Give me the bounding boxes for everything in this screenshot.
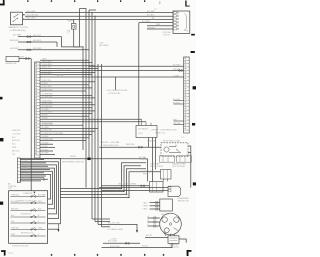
switch box title [24,192,36,195]
svg-text:3 YEL: 3 YEL [22,164,27,166]
component box: radiator fan motor terminals [160,199,173,211]
svg-text:YEL: YEL [12,154,15,156]
wire: crossover row to strip [40,70,184,72]
svg-text:AIR SELECTOR: AIR SELECTOR [21,231,34,234]
relay box: condenser fan motor relay [160,156,175,162]
svg-text:BLU BLK: BLU BLK [147,15,155,17]
wire: clutch to condenser fan connector pin 2 [25,15,173,17]
svg-text:C-x: C-x [181,137,184,139]
label: condenser fan motor [177,198,189,202]
wire: feed to condenser fan plug 2 [102,190,168,192]
wire: branch to bus mid [115,77,117,90]
wire: diode feed row [40,158,148,161]
bus wire 1 vertical [79,8,81,47]
connector id label C-33 [99,43,109,48]
bottom edge fold ticks [51,254,164,256]
svg-text:2 GRN: 2 GRN [143,206,149,208]
strip id label [150,129,184,139]
right edge alignment tick B [191,51,195,53]
wire: clutch to condenser fan connector pin 1 [25,12,173,14]
wire from left connector row y62.6 [40,62,92,64]
wire: crossover from bus to bulkhead pin [89,65,184,67]
wire: cooling fan feed row [102,183,150,187]
dashed relay labels [147,140,181,143]
wire from left connector row y151.0 [40,150,53,152]
label: A/C control unit [8,182,17,190]
svg-text:BLU WHT: BLU WHT [142,21,151,23]
svg-text:PUSH BUTTON SW: PUSH BUTTON SW [12,246,29,248]
wire: feed to condenser fan plug 1 [99,187,168,189]
label: junction block ignition [106,90,127,95]
svg-text:COND FAN: COND FAN [147,140,157,143]
svg-text:GRN: GRN [20,57,25,59]
wire from left connector row y110.9 [40,110,95,112]
wire from left connector row y131.2 [40,130,95,132]
svg-text:27 YEL: 27 YEL [42,149,48,151]
page corner registration mark bottom-left [1,250,6,255]
svg-text:MOTOR RELAY: MOTOR RELAY [150,165,164,168]
left edge pointer arrow [0,202,3,205]
svg-text:TO CHARGE LAMP: TO CHARGE LAMP [107,228,124,231]
wire: relay pin drop B [40,122,146,125]
wire: crossover row lt grn [40,76,184,78]
wire: relay block output down [148,138,150,148]
svg-text:C-36 WHT : COND FAN: C-36 WHT : COND FAN [100,141,120,144]
wire: vertical drop column 1 [138,23,140,126]
svg-text:WHT BLK: WHT BLK [12,140,21,142]
wire from left connector row y144.2 [40,143,53,145]
wire: resistor to left [145,237,168,239]
svg-text:10 BLU RED: 10 BLU RED [42,89,53,91]
svg-text:GRN BLK: GRN BLK [147,27,156,29]
svg-text:GRN RED: GRN RED [173,123,182,125]
junction dots on bus [82,12,95,71]
switch contact row 3 [11,208,46,211]
relay base box [150,182,164,193]
relay box: radiator fan motor relay [177,156,192,162]
page corner registration mark top-left [0,0,5,5]
svg-text:18 YEL: 18 YEL [42,115,48,117]
svg-text:BLU RED: BLU RED [173,99,181,101]
in-line fuse F1 [71,24,76,30]
switch contact row 6 [11,227,46,230]
svg-text:BLK 1.25B: BLK 1.25B [108,240,117,242]
svg-text:WHT RED: WHT RED [126,144,135,146]
wire from left connector row y104.7 [40,104,95,106]
wire: control unit run 8 stub [20,180,41,182]
wire: row 2 drop [56,42,58,47]
svg-text:MOTOR RELAY: MOTOR RELAY [173,165,187,168]
svg-text:14 BLU RED: 14 BLU RED [42,103,53,105]
label: radiator fan motor relay [173,162,187,167]
wire: row 1 drop [62,37,80,47]
wire from left connector row y154.4 [40,153,55,155]
svg-text:5 BLK: 5 BLK [22,171,28,173]
wire from left connector row y128.6 [40,128,98,130]
switch contact row 1 [11,194,47,197]
wire from left connector row y113.4 [40,112,92,114]
wire from left connector row y137.8 [40,137,89,139]
svg-text:RELAY FEED 30A: RELAY FEED 30A [103,144,119,147]
svg-text:BLOWER SW: BLOWER SW [21,214,32,216]
wire: control unit run 5 down to switch row [20,171,52,204]
wire: resistor right stub [179,239,186,243]
wire from left connector row y147.6 [40,147,55,149]
svg-text:DIODE: DIODE [70,156,76,158]
wire from left connector row y97.9 [40,97,95,99]
svg-text:24 GRN WHT: 24 GRN WHT [42,139,55,141]
svg-text:C-18 WHT : COND FAN MOTOR: C-18 WHT : COND FAN MOTOR [150,129,177,132]
svg-text:C-x: C-x [66,33,69,35]
bus wire 6 vertical [94,16,96,221]
svg-text:THERMO CONTROL SW: THERMO CONTROL SW [17,200,37,202]
wire: relay return run 2 [60,166,141,192]
wire: bus corner to bottom-middle 2 [95,221,110,223]
wire from left connector row y140.5 [40,140,86,142]
svg-text:RELAY (ENG COMP): RELAY (ENG COMP) [163,140,181,143]
bus wire 7 vertical [97,64,99,224]
wire from control unit pin 5 [20,172,44,174]
svg-text:4 RED: 4 RED [22,168,28,170]
wire: feed to condenser fan relay [99,146,161,148]
svg-text:HEATER RELAY: HEATER RELAY [57,68,71,71]
svg-text:BLK : COND FAN MOTOR GND: BLK : COND FAN MOTOR GND [104,193,131,196]
wire from left connector row y84.8 [40,84,89,86]
wire: vertical drop column 2 [152,138,154,182]
arrowhead on charge lamp drop [136,230,138,233]
switch contact row 2 [11,201,46,204]
svg-text:2 BLU WHT: 2 BLU WHT [42,61,53,63]
component box: A/C compressor magnetic clutch [11,12,23,25]
svg-text:A/C RELAY: A/C RELAY [139,128,149,131]
bus wire 3 vertical [85,8,87,187]
bulkhead connector (right pin strip) [184,57,190,133]
wire: control unit run 7 stub [20,178,44,181]
radiator fan motor body circle [160,213,182,235]
svg-text:RELAY COIL: RELAY COIL [155,132,165,135]
left side pin labels of ladder [12,130,21,156]
wire: harness trunk vertical [30,59,32,191]
svg-text:C-x: C-x [154,9,157,11]
svg-text:22 WHT BLK COND FAN: 22 WHT BLK COND FAN [42,132,64,135]
wire: bus corner to bottom-middle 1 [92,218,110,220]
svg-text:16 BLU WHT: 16 BLU WHT [42,123,54,125]
cooling fan relay box [161,170,172,182]
svg-text:RELAY: RELAY [143,172,150,175]
wire from left connector row y91.0 [40,90,86,92]
ground row labels [108,238,120,247]
wire from left connector row y116.3 [40,115,89,117]
wire from left connector row y107.8 [40,107,92,109]
svg-text:12 GRN YEL: 12 GRN YEL [42,96,53,98]
svg-text:BLU RED: BLU RED [33,48,42,50]
wire from left connector row y134.6 [40,134,92,136]
wire: control unit run 3 down to switch row [20,165,56,214]
svg-text:26 BLK: 26 BLK [42,146,49,148]
svg-text:(COMPRESSOR): (COMPRESSOR) [10,30,26,32]
wire: branch to in-line fuse [73,19,75,23]
bus wire 4 top corner [89,9,96,11]
svg-text:15 GRN BLK: 15 GRN BLK [42,106,54,108]
connector: A/C control unit ladder [17,158,20,183]
wire from left connector row y68.4 [40,67,98,69]
svg-text:BLK YEL 2.5B: BLK YEL 2.5B [108,222,120,224]
connector plug: condenser fan motor [168,186,181,196]
wire: relay pin drop A [40,118,142,120]
wire: vertical drop column 3 [155,138,157,170]
svg-text:BLK 2B: BLK 2B [142,245,149,247]
bus wire 4 vertical [88,10,90,160]
wire: control unit run 1 down to switch row [20,159,60,224]
component: A/C relay block in J/B [136,119,157,137]
svg-text:(BLOWER): (BLOWER) [99,45,109,47]
label left of relay boxes [139,156,149,161]
svg-text:1 BLU: 1 BLU [22,158,28,160]
svg-text:PUSH SW: PUSH SW [24,193,33,195]
wires into motor box [143,202,160,211]
switch contact row 5 [11,221,46,224]
bus wire 1 top corner [80,7,86,9]
wire from left connector row y74.6 [40,74,92,76]
svg-text:COND FAN: COND FAN [139,158,149,161]
wire from left connector row y87.9 [40,87,92,89]
wires into connector pins 4-6 [139,23,173,29]
top edge fold ticks [27,0,145,2]
wire: resistor ground return [102,243,173,247]
wire: relay out 2 [188,152,191,154]
pin stubs on clutch box [23,14,26,20]
wire from left connector row y65.8 [40,65,95,67]
svg-text:GRN : COOLING FAN: GRN : COOLING FAN [118,183,136,186]
wire: switch row feed with arrow [48,224,60,232]
svg-text:21 BLU YEL: 21 BLU YEL [42,130,52,132]
component box: push button A/C switch assembly [9,191,48,244]
svg-text:MOTOR: MOTOR [164,34,171,36]
svg-text:2: 2 [159,1,161,5]
wire from left connector row y60.3 [40,59,89,61]
svg-text:C-21 GRN: C-21 GRN [12,133,21,135]
stub wires into right strip [174,101,184,125]
svg-text:BLU YEL: BLU YEL [33,35,41,37]
label: cooling fan relay [141,170,154,175]
right edge alignment tick C [193,86,196,89]
svg-text:8 GRN: 8 GRN [42,83,48,85]
switch contact row 7 [11,234,46,237]
wire: junction across to bus [74,46,83,48]
svg-text:xxxxxx: xxxxxx [8,253,13,255]
diode label [62,156,84,163]
connector block: condenser fan sub-harness [173,11,190,33]
svg-text:BLU BLK: BLU BLK [33,40,42,42]
wire: row 2 with in-line connector [18,41,57,43]
svg-text:GRN: GRN [156,24,161,26]
bus wire 5 vertical [91,13,93,219]
switch contact row 4 [11,215,46,218]
svg-text:BLK 2B: BLK 2B [146,235,153,237]
svg-text:COOLING SW: COOLING SW [108,93,121,95]
svg-text:15 BLU: 15 BLU [42,118,49,120]
svg-text:6 WHT: 6 WHT [22,174,28,176]
wire: diode row drop to relay base [147,159,149,182]
relay: condenser fan relay dashed outline [161,143,188,157]
wire: fuse down to junction [73,29,75,47]
svg-text:RED BLU: RED BLU [12,150,20,152]
svg-text:REFRIGERANT TEMP SW: REFRIGERANT TEMP SW [62,160,84,163]
left edge alignment tick B [0,138,3,141]
svg-text:A/C SW: A/C SW [57,74,64,77]
svg-text:25 RED: 25 RED [42,143,49,145]
svg-text:C-x BLK: C-x BLK [110,238,117,240]
svg-text:MAGNETIC CLUTCH: MAGNETIC CLUTCH [9,26,29,29]
right edge alignment tick E [193,182,196,185]
svg-text:28 GRN: 28 GRN [42,153,49,155]
svg-text:BLU RED: BLU RED [173,65,181,67]
wire: row 3 with in-line connector [18,49,89,51]
wire labels at connector [142,9,171,37]
page corner registration mark bottom-right [187,250,192,256]
wire: relay out to right edge [188,146,191,188]
svg-text:7 GRY: 7 GRY [22,177,28,179]
wire: relay return run 1 [60,163,146,189]
wire from left connector row y125.3 [40,124,83,126]
fuse label [66,21,73,35]
wire: motor to dropping resistor [163,232,166,236]
wire: thermo row with connector [19,58,31,60]
svg-text:BLU RED: BLU RED [147,11,155,13]
svg-text:FAN MOTOR: FAN MOTOR [178,200,189,203]
connector C-21 heater harness (left ladder) [35,62,40,158]
dropping resistor [168,234,179,244]
wire: relay return run 3 [60,169,146,195]
svg-text:23 WHT: 23 WHT [42,136,50,138]
wire from control unit pin 6 [20,175,46,177]
label: dropping resistor [169,244,179,248]
condenser feed labels [100,141,135,147]
svg-text:GRN: GRN [38,227,43,229]
labels at right strip [173,65,182,125]
svg-text:L: L [185,0,190,9]
wire: clutch circuit to pin 3 [25,18,173,20]
label: condenser fan motor relay [150,162,164,167]
svg-text:GRN: GRN [12,147,17,149]
right edge alignment tick A [191,34,195,36]
label: magnetic clutch (compressor) [9,26,29,32]
wire: relay return run 4 [60,172,160,198]
wire: ground row bottom [103,242,140,244]
wire from left connector row y81.7 [40,81,95,83]
wire from control unit pin 2 [20,162,46,164]
bus wire 8 vertical [101,64,103,227]
svg-text:BLU BLK: BLU BLK [173,102,181,104]
wire from left connector row y95.4 [40,94,92,96]
wire from control unit pin 1 [20,159,44,161]
in-line connector on crossover [179,70,183,72]
wire from left connector row y72.4 [40,71,95,73]
clutch contacts inside box [13,14,19,22]
wire from control unit pin 4 [20,168,50,170]
wire: bus corner to bottom-middle 4 [102,226,111,228]
svg-text:THERMO SW: THERMO SW [5,63,16,65]
svg-text:1 BLU: 1 BLU [143,202,148,204]
right edge alignment tick D [192,123,195,126]
wire: row 1 with in-line connector [18,36,62,38]
wire from control unit pin 3 [20,165,48,167]
left edge alignment tick A [0,97,3,100]
svg-text:2 GRN: 2 GRN [22,161,28,163]
wire from left connector row y102.2 [40,101,92,103]
wire: control unit run 2 down to switch row [20,162,58,219]
svg-text:FUSE: FUSE [68,21,74,23]
svg-text:YEL: YEL [11,221,14,223]
svg-text:9 YEL GRN: 9 YEL GRN [42,86,52,88]
wire: control unit run 6 down to switch row [20,175,50,200]
svg-text:BLU RED: BLU RED [38,194,46,196]
svg-text:(J/B): (J/B) [139,133,143,135]
thermo switch box [6,56,19,61]
svg-text:RED BLU: RED BLU [11,208,19,210]
svg-text:4 BLU YEL: 4 BLU YEL [42,67,51,69]
svg-text:7 BLU YEL: 7 BLU YEL [42,80,51,82]
svg-text:6 GRN BLK: 6 GRN BLK [42,73,53,75]
wires into fan motor [148,215,160,227]
svg-text:GRN BLK: GRN BLK [11,194,20,196]
wire from control unit pin 7 [20,178,48,180]
svg-text:GRN YEL: GRN YEL [11,227,19,229]
svg-text:GRN RED: GRN RED [12,130,21,132]
wire: bus corner to charge lamp drop [98,224,137,230]
wire: control unit run 4 down to switch row [20,168,54,209]
svg-text:17 YEL RED: 17 YEL RED [42,112,53,114]
bus wire 2 vertical [82,47,84,150]
